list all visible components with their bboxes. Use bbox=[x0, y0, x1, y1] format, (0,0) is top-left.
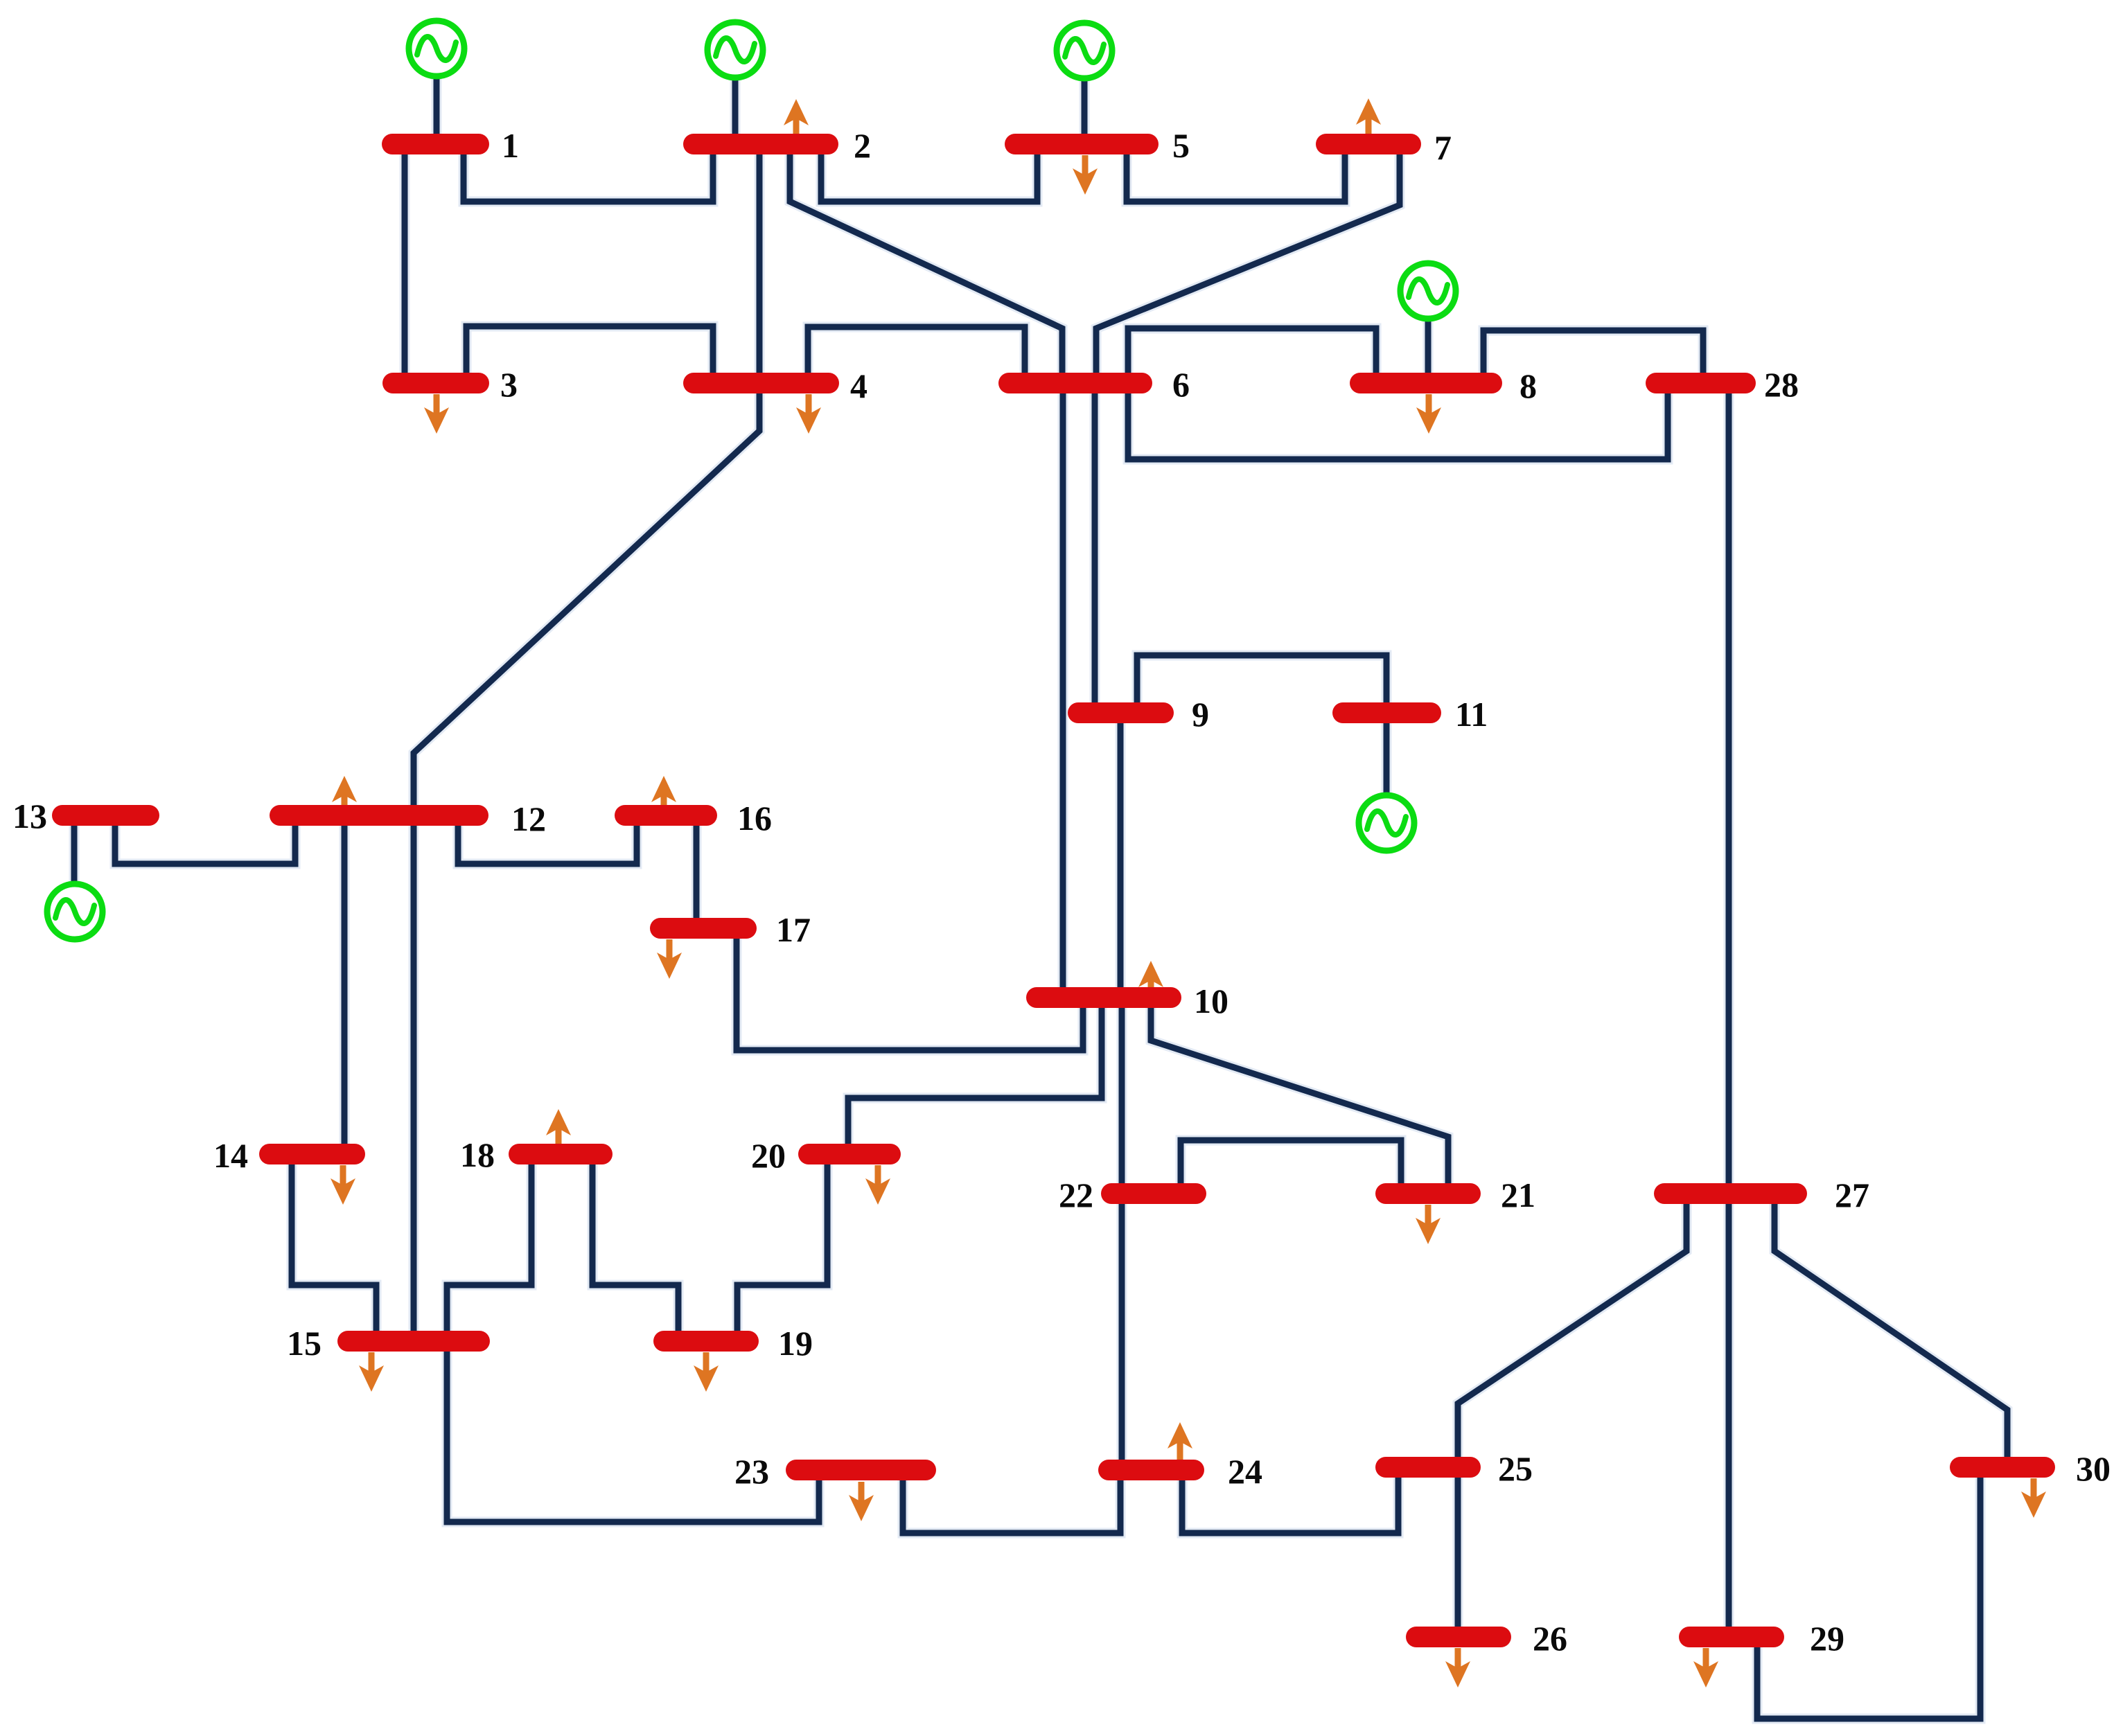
wire 10-22 bbox=[1119, 998, 1125, 1194]
generator G5 bbox=[1057, 23, 1112, 78]
wire 3-4 bbox=[466, 326, 713, 383]
bus 21 bar bbox=[1375, 1183, 1481, 1204]
wire 9-11 bbox=[1137, 655, 1386, 713]
load arrow bus 2 (up) bbox=[784, 99, 809, 139]
bus 8 bar bbox=[1350, 373, 1502, 393]
svg-text:8: 8 bbox=[1520, 366, 1537, 405]
load arrow bus 4 (down) bbox=[796, 394, 821, 434]
bus 19 bar bbox=[653, 1331, 759, 1352]
bus 5 bar bbox=[1005, 134, 1159, 154]
load arrow bus 10 (up) bbox=[1138, 961, 1163, 1000]
wire 12-13 bbox=[115, 815, 295, 864]
svg-text:3: 3 bbox=[500, 365, 518, 404]
bus 4 bar bbox=[683, 373, 839, 393]
bus 22 bar bbox=[1101, 1183, 1206, 1204]
generator G8 bbox=[1400, 263, 1456, 319]
wire 6-8 bbox=[1128, 328, 1376, 383]
svg-text:4: 4 bbox=[850, 366, 867, 405]
load arrow bus 21 (down) bbox=[1416, 1205, 1441, 1244]
wire 23-24 bbox=[903, 1470, 1120, 1533]
svg-text:11: 11 bbox=[1455, 695, 1488, 734]
load arrow bus 12 (up) bbox=[332, 776, 357, 815]
wire 14-15 bbox=[292, 1154, 376, 1341]
load arrow bus 17 (down) bbox=[657, 939, 682, 979]
wire 18-19 bbox=[592, 1154, 678, 1341]
svg-text:18: 18 bbox=[460, 1135, 495, 1174]
load arrow bus 8 (down) bbox=[1416, 394, 1441, 434]
generator G1 bbox=[409, 21, 464, 76]
bus 11 bar bbox=[1332, 702, 1441, 723]
svg-text:26: 26 bbox=[1533, 1619, 1567, 1658]
bus 15 bar bbox=[337, 1331, 490, 1352]
wire gen8 stub bbox=[1425, 291, 1432, 383]
svg-text:13: 13 bbox=[12, 797, 47, 835]
wire gen11 stub bbox=[1384, 713, 1390, 823]
wire 19-20 bbox=[737, 1154, 827, 1341]
wire 1-3 bbox=[402, 144, 408, 383]
bus 1 bar bbox=[382, 134, 489, 154]
svg-text:12: 12 bbox=[511, 799, 546, 838]
wire 2-4 bbox=[757, 144, 763, 383]
wire 4-6 bbox=[808, 327, 1025, 383]
svg-text:21: 21 bbox=[1501, 1176, 1535, 1214]
wire gen2 stub bbox=[732, 50, 739, 144]
wire 6-10 bbox=[1060, 383, 1066, 998]
wire 15-18 bbox=[447, 1154, 531, 1341]
svg-text:14: 14 bbox=[213, 1136, 248, 1175]
load arrow bus 19 (down) bbox=[694, 1352, 719, 1392]
svg-text:7: 7 bbox=[1434, 128, 1452, 167]
svg-text:30: 30 bbox=[2076, 1449, 2111, 1488]
bus 25 bar bbox=[1375, 1457, 1481, 1478]
wire 10-20 bbox=[848, 998, 1102, 1154]
load arrow bus 15 (down) bbox=[359, 1352, 384, 1392]
wire 12-16 bbox=[458, 815, 637, 864]
load arrow bus 30 (down) bbox=[2021, 1478, 2046, 1518]
wire gen5 stub bbox=[1082, 51, 1088, 144]
svg-text:27: 27 bbox=[1835, 1176, 1869, 1214]
wire 21-22 bbox=[1181, 1140, 1401, 1194]
wire 25-26 bbox=[1455, 1467, 1461, 1637]
svg-text:29: 29 bbox=[1810, 1619, 1844, 1658]
svg-text:20: 20 bbox=[751, 1136, 786, 1175]
svg-text:19: 19 bbox=[778, 1324, 813, 1363]
wire 9-10 bbox=[1118, 713, 1124, 998]
bus 23 bar bbox=[786, 1460, 936, 1480]
generator G2 bbox=[707, 22, 763, 78]
bus 7 bar bbox=[1316, 134, 1421, 154]
wire 27-29 bbox=[1726, 1194, 1732, 1637]
load arrow bus 5 (down) bbox=[1073, 155, 1098, 195]
svg-text:28: 28 bbox=[1764, 365, 1799, 404]
wire 2-5 bbox=[821, 144, 1037, 202]
wire 16-17 bbox=[694, 815, 700, 928]
wire 5-7 bbox=[1127, 144, 1345, 202]
wire 12-15 bbox=[411, 815, 417, 1341]
load arrow bus 7 (up) bbox=[1356, 98, 1381, 138]
load arrow bus 20 (down) bbox=[865, 1165, 890, 1205]
svg-text:22: 22 bbox=[1059, 1176, 1093, 1214]
wire 10-21 bbox=[1151, 998, 1448, 1194]
svg-text:24: 24 bbox=[1228, 1452, 1262, 1491]
wire 29-30 bbox=[1757, 1467, 1980, 1719]
bus 6 bar bbox=[998, 373, 1152, 393]
bus 27 bar bbox=[1654, 1183, 1807, 1204]
bus 2 bar bbox=[683, 134, 838, 154]
wire 12-14 bbox=[342, 815, 348, 1154]
wire 4-12 bbox=[414, 383, 759, 815]
load arrow bus 29 (down) bbox=[1693, 1648, 1718, 1688]
svg-text:16: 16 bbox=[737, 799, 772, 838]
wire 8-28 bbox=[1483, 330, 1703, 383]
svg-text:25: 25 bbox=[1498, 1449, 1533, 1488]
load arrow bus 14 (down) bbox=[331, 1165, 355, 1205]
wire 25-27 bbox=[1458, 1194, 1686, 1467]
svg-text:1: 1 bbox=[502, 126, 519, 165]
svg-text:23: 23 bbox=[734, 1452, 769, 1491]
bus 16 bar bbox=[615, 805, 717, 826]
bus 26 bar bbox=[1406, 1627, 1511, 1647]
generator G13 bbox=[47, 884, 103, 939]
wire 10-17 bbox=[737, 928, 1083, 1050]
wire 28-27 bbox=[1726, 383, 1732, 1194]
load arrow bus 3 (down) bbox=[424, 394, 449, 434]
svg-text:17: 17 bbox=[776, 910, 811, 949]
wire 2-6 bbox=[790, 144, 1062, 383]
bus 9 bar bbox=[1068, 702, 1174, 723]
load arrow bus 23 (down) bbox=[849, 1482, 874, 1521]
wire 24-25 bbox=[1182, 1467, 1398, 1533]
svg-text:5: 5 bbox=[1172, 126, 1190, 165]
bus 13 bar bbox=[52, 805, 159, 826]
wire 22-24 bbox=[1119, 1194, 1125, 1470]
bus 10 bar bbox=[1026, 987, 1181, 1008]
generator G11 bbox=[1359, 795, 1414, 851]
bus 30 bar bbox=[1950, 1457, 2055, 1478]
wire 15-23 bbox=[447, 1341, 819, 1522]
svg-text:9: 9 bbox=[1192, 695, 1209, 734]
bus 18 bar bbox=[509, 1144, 613, 1164]
wire 6-28 bbox=[1128, 383, 1668, 459]
wire 27-30 bbox=[1774, 1194, 2007, 1467]
load arrow bus 26 (down) bbox=[1445, 1648, 1470, 1688]
wire 6-9 bbox=[1092, 383, 1098, 713]
bus 24 bar bbox=[1098, 1460, 1204, 1480]
wire 6-7 bbox=[1096, 144, 1400, 383]
svg-text:2: 2 bbox=[854, 126, 871, 165]
bus 28 bar bbox=[1646, 373, 1756, 393]
bus 29 bar bbox=[1679, 1627, 1784, 1647]
wire 1-2 bbox=[464, 144, 713, 202]
bus 14 bar bbox=[259, 1144, 365, 1164]
bus 12 bar bbox=[270, 805, 488, 826]
svg-text:15: 15 bbox=[287, 1324, 321, 1363]
load arrow bus 16 (up) bbox=[651, 776, 676, 815]
bus 3 bar bbox=[382, 373, 489, 393]
load arrow bus 24 (up) bbox=[1168, 1422, 1192, 1462]
bus 17 bar bbox=[650, 918, 757, 939]
svg-text:6: 6 bbox=[1172, 365, 1190, 404]
svg-text:10: 10 bbox=[1194, 982, 1228, 1020]
wire gen1 stub bbox=[434, 48, 440, 144]
wire gen13 stub bbox=[71, 815, 78, 912]
bus 20 bar bbox=[798, 1144, 901, 1164]
load arrow bus 18 (up) bbox=[546, 1109, 571, 1149]
